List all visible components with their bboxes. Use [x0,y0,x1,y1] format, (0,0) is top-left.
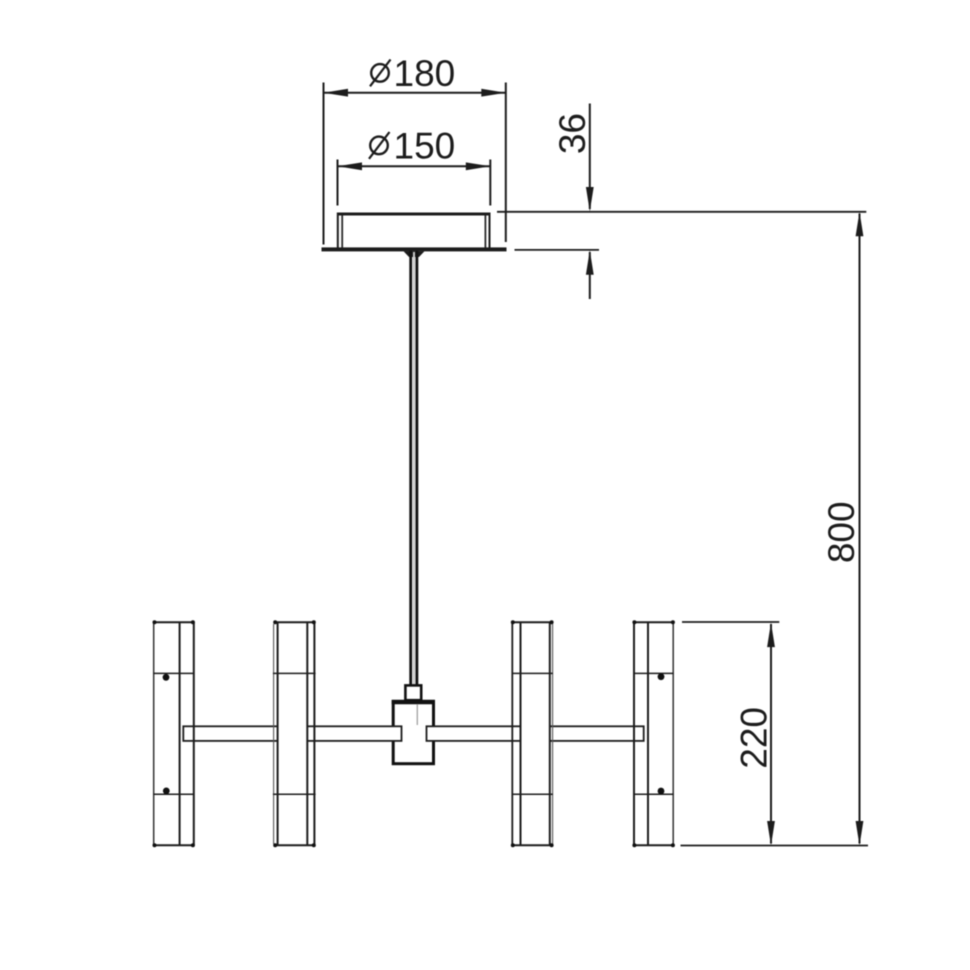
canopy [337,213,490,248]
arm right [427,726,644,741]
dimension text Ø180 [370,53,455,94]
arm left [183,726,401,741]
dimension 800 [821,212,863,846]
lamp tube 1 [153,620,195,847]
rod collar under flange [404,251,425,257]
lamp tube 4 [632,620,675,847]
svg-text:800: 800 [821,501,862,563]
svg-text:150: 150 [394,125,456,166]
dimension 36 leader at canopy top [497,211,866,213]
lamp tube 3 [511,620,554,847]
dimension 36 leader at flange bottom [515,249,600,251]
lamp tube 2 [273,620,316,847]
lamp tube panels (opaque faces) [155,623,673,845]
svg-text:220: 220 [734,707,775,769]
dimension 36 [552,104,594,300]
dimension 220 [682,622,779,846]
suspension rod [411,251,417,686]
rod connector [405,685,421,700]
svg-text:180: 180 [394,53,456,94]
dimension text Ø150 [369,125,455,166]
shared bottom extension line [681,845,869,847]
svg-text:36: 36 [552,113,593,154]
canopy flange [322,247,507,251]
dimension line Ø180 [324,83,506,245]
dimension line Ø150 [338,160,491,206]
hub [392,702,435,764]
